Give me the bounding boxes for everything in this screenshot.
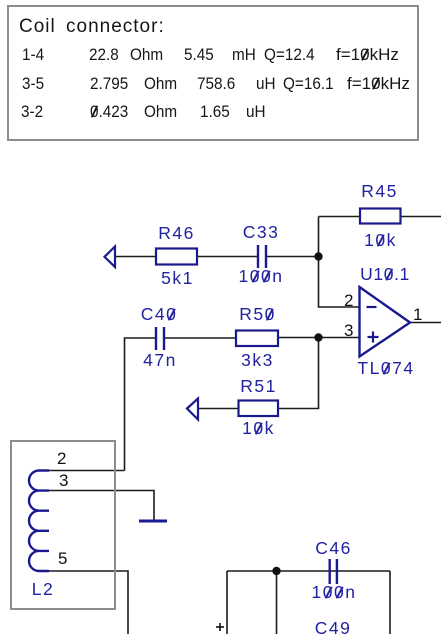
label 47n	[143, 352, 177, 370]
label 3k3	[241, 352, 274, 370]
pin number 2 of op-amp	[344, 292, 353, 309]
table row 3-5 uH unit	[256, 75, 276, 92]
wire: vertical feedback branch R45 to op-amp pin 2	[319, 217, 360, 308]
capacitor C46 plates	[330, 559, 337, 584]
resistor R50 body	[236, 331, 278, 347]
pin number 2 of L2	[57, 450, 66, 467]
port arrow at R51	[187, 399, 198, 420]
op-amp U10.1 triangle	[360, 287, 411, 357]
label R51	[240, 378, 277, 396]
label R46	[158, 225, 195, 243]
capacitor C40 plates	[156, 327, 164, 350]
wire: bottom right vertical	[389, 571, 391, 634]
label R45	[361, 183, 398, 201]
table row 1-4 inductance	[184, 46, 214, 63]
wire: C40 left lead down to L2 pin 2	[125, 338, 157, 471]
wire: arrow port to R51	[198, 408, 239, 410]
table row 3-5 inductance	[197, 75, 235, 92]
table row 3-2 Ohm unit	[144, 103, 177, 120]
label 5k1	[161, 270, 194, 288]
pin number 5 of L2	[58, 550, 67, 567]
table row 1-4 Ohm unit	[130, 46, 163, 63]
label U10.1	[360, 266, 410, 284]
label L2	[32, 581, 54, 599]
label C40	[141, 306, 178, 324]
wire: C33 to junction node	[266, 256, 319, 258]
label 10k of R51	[242, 420, 275, 438]
pin number 1 of op-amp	[413, 306, 422, 323]
wire: bottom left vertical	[226, 571, 228, 634]
label C49	[315, 620, 352, 634]
table row 3-5 Q factor	[283, 75, 334, 92]
label C33	[243, 224, 280, 242]
table row 1-4 resistance	[89, 46, 123, 63]
label C46	[315, 540, 352, 558]
label 100n of C46	[312, 584, 357, 602]
wire: R45 left lead	[319, 216, 361, 218]
wire: R45 right lead to edge	[401, 216, 441, 218]
input port arrow left	[105, 247, 116, 268]
wire: L2 pin 5 lead down	[49, 571, 128, 634]
wire: R46 to C33	[197, 256, 258, 258]
ground bar	[139, 520, 167, 523]
wire: op-amp output pin 1	[410, 322, 441, 324]
table row 1-4 mH unit	[232, 46, 256, 63]
wire: L2 pin 3 to ground	[49, 491, 154, 521]
table row 1-4 Q factor	[264, 46, 315, 63]
coil connector info box frame	[7, 5, 419, 141]
label R50	[239, 306, 276, 324]
wire: C40 to R50	[164, 337, 236, 339]
resistor R51 body	[239, 401, 279, 417]
table row 3-5 resistance	[90, 75, 128, 92]
resistor R45 body	[360, 209, 401, 224]
wire: input arrow to R46	[115, 256, 156, 258]
wire: bottom bus horizontal	[227, 570, 390, 572]
junction node at op-amp pin 3	[314, 333, 322, 341]
wire: bottom middle vertical	[276, 571, 278, 634]
label 10k of R45	[364, 232, 397, 250]
wire: R50 to pin 3 junction	[278, 337, 360, 339]
pin number 3 of op-amp	[344, 322, 353, 339]
wire: junction down to R51	[278, 338, 319, 409]
table row 3-2 resistance	[90, 103, 128, 120]
label TL074	[357, 360, 414, 378]
table row 3-5 pins	[22, 75, 44, 92]
table row 3-2 uH unit	[246, 103, 266, 120]
junction node at C33 output	[314, 252, 322, 260]
plus mark bottom left	[216, 623, 224, 631]
resistor R46 body	[156, 249, 197, 265]
label 100n of C33	[239, 268, 284, 286]
pin number 3 of L2	[59, 472, 68, 489]
junction node on bottom bus	[272, 567, 280, 575]
wire: L2 pin 2 to C40 branch	[49, 470, 125, 472]
table row 1-4 frequency	[336, 46, 399, 63]
table row 3-2 pins	[21, 103, 43, 120]
table row 3-5 frequency	[347, 75, 410, 92]
capacitor C33 plates	[258, 245, 266, 268]
L2 connector box frame	[10, 440, 116, 610]
table row 3-5 Ohm unit	[144, 75, 177, 92]
inductor L2 coil	[29, 471, 49, 571]
table row 3-2 inductance	[200, 103, 230, 120]
title: Coil connector:	[19, 17, 165, 36]
table row 1-4 pins	[22, 46, 44, 63]
